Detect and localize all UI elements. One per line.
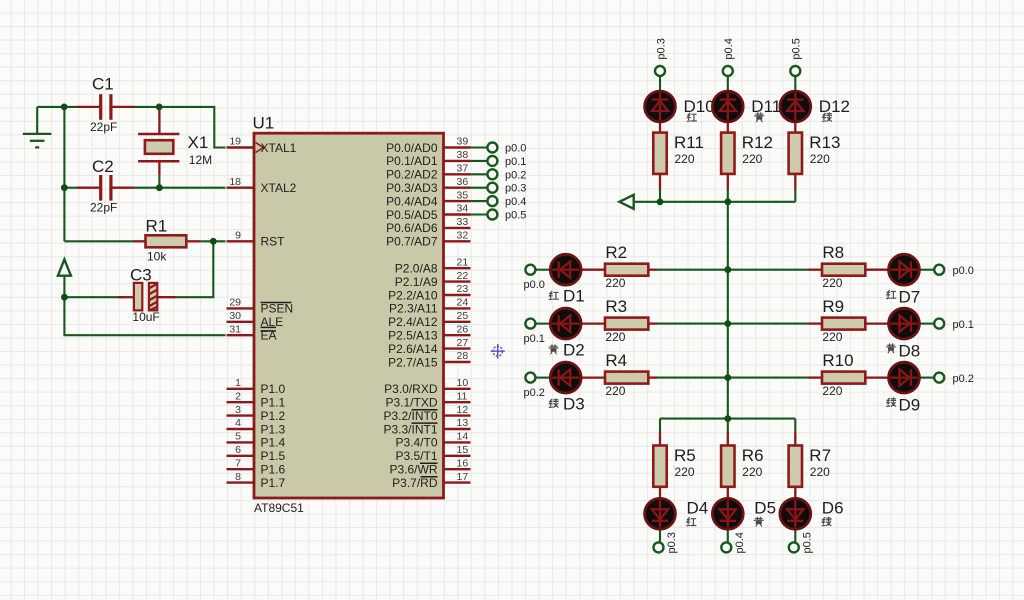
svg-text:p0.3: p0.3 (505, 183, 526, 195)
svg-text:25: 25 (457, 310, 469, 322)
svg-text:P2.1/A9: P2.1/A9 (395, 275, 438, 289)
svg-text:220: 220 (675, 465, 695, 479)
LED D9 (889, 362, 920, 393)
svg-text:27: 27 (457, 337, 469, 349)
junction: C2 / crystal bottom (156, 184, 163, 191)
wire: XTAL2 net right segment (135, 187, 226, 189)
wire: P0.4 pin to terminal (471, 200, 487, 202)
svg-text:p0.3: p0.3 (666, 532, 678, 553)
svg-text:D1: D1 (563, 287, 585, 306)
svg-text:R1: R1 (146, 216, 168, 235)
svg-text:4: 4 (235, 417, 241, 429)
svg-text:1: 1 (235, 377, 241, 389)
svg-text:19: 19 (229, 136, 241, 148)
pin P1.3 (#4) left stub (227, 417, 286, 436)
svg-text:220: 220 (605, 276, 625, 290)
pin P1.0 (#1) left stub (227, 377, 286, 396)
node p0.0 terminal at chip (487, 143, 497, 153)
pin P0.2/AD2 (#37) right stub (386, 163, 470, 182)
svg-text:32: 32 (457, 230, 469, 242)
svg-text:220: 220 (822, 276, 842, 290)
svg-text:R13: R13 (809, 133, 840, 152)
svg-text:38: 38 (457, 149, 469, 161)
pin P3.6/WR (#16) right stub (389, 457, 470, 476)
lead: R7 top (794, 432, 796, 446)
lead: D7 through-lead (865, 269, 920, 271)
svg-text:13: 13 (457, 417, 469, 429)
svg-text:p0.5: p0.5 (505, 210, 526, 222)
svg-text:p0.1: p0.1 (953, 319, 974, 331)
svg-text:D12: D12 (819, 97, 850, 116)
svg-text:p0.3: p0.3 (655, 38, 667, 59)
label colour of D3 (549, 399, 558, 408)
XTAL1 clock input marker (256, 143, 264, 153)
svg-text:6: 6 (235, 444, 241, 456)
wire: column C top riser (794, 189, 796, 202)
wire: RST net right of R1 (201, 240, 226, 242)
wire: column B top riser (727, 189, 729, 202)
svg-text:PSEN: PSEN (261, 302, 294, 316)
svg-text:36: 36 (457, 176, 469, 188)
svg-text:p0.5: p0.5 (801, 532, 813, 553)
node p0.1 terminal left (525, 319, 535, 329)
svg-text:C3: C3 (130, 265, 152, 284)
svg-text:P3.7/RD: P3.7/RD (392, 476, 438, 490)
svg-text:P1.1: P1.1 (261, 396, 286, 410)
lead: D6 through-lead (794, 487, 796, 530)
svg-text:14: 14 (457, 431, 469, 443)
svg-text:p0.4: p0.4 (734, 532, 746, 553)
svg-text:7: 7 (235, 457, 241, 469)
lead: R5 top (659, 432, 661, 446)
svg-text:D4: D4 (687, 499, 709, 518)
lead: D8 through-lead (865, 322, 920, 324)
resistor R4 (605, 351, 648, 398)
svg-text:P3.5/T1: P3.5/T1 (395, 449, 437, 463)
pin P3.5/T1 (#15) right stub (395, 444, 470, 463)
svg-text:P2.0/A8: P2.0/A8 (395, 262, 438, 276)
svg-text:R5: R5 (674, 446, 696, 465)
label colour of D11 (755, 113, 764, 122)
wire: bottom col A stub (659, 419, 661, 432)
svg-text:p0.0: p0.0 (524, 279, 545, 291)
svg-text:p0.4: p0.4 (505, 196, 526, 208)
origin crosshair marker (491, 344, 505, 359)
svg-text:33: 33 (457, 216, 469, 228)
junction: RST / C3 branch (210, 238, 217, 245)
svg-text:R11: R11 (674, 133, 704, 152)
wire: RST net left of R1 (64, 240, 133, 242)
svg-text:U1: U1 (253, 114, 275, 133)
lead: D5 through-lead (727, 487, 729, 530)
label colour of D1 (549, 291, 558, 299)
svg-text:21: 21 (457, 256, 469, 268)
resistor R7 (789, 446, 831, 487)
pin P2.7/A15 (#28) right stub (388, 350, 470, 369)
svg-text:p0.4: p0.4 (723, 38, 735, 59)
svg-text:35: 35 (457, 189, 469, 201)
wire: center vertical bus (727, 202, 729, 419)
svg-text:220: 220 (810, 152, 830, 166)
svg-text:R4: R4 (605, 351, 627, 370)
lead: R6 top (727, 432, 729, 446)
LED D8 (889, 308, 920, 339)
svg-text:P1.2: P1.2 (261, 409, 286, 423)
svg-text:34: 34 (457, 203, 469, 215)
wire: P0.3 pin to terminal (471, 187, 487, 189)
wire: bottom LED to terminal x=660.0 (659, 530, 661, 543)
wire: top terminal drop x=795.3 (794, 76, 796, 94)
svg-text:22pF: 22pF (90, 120, 117, 134)
wire: row 1 right (bus to R) (728, 269, 809, 271)
junction: row 3 / bus (724, 374, 731, 381)
svg-text:P2.3/A11: P2.3/A11 (389, 302, 438, 316)
svg-text:23: 23 (457, 283, 469, 295)
pin P0.4/AD4 (#35) right stub (386, 189, 470, 208)
svg-text:P3.6/WR: P3.6/WR (389, 463, 437, 477)
wire: EA net (64, 297, 225, 335)
resistor R11 (653, 133, 704, 174)
svg-text:22pF: 22pF (90, 200, 117, 214)
pin RST (#9) left stub (227, 230, 286, 249)
node p0.5 terminal at chip (487, 210, 497, 220)
node p0.5 terminal top (790, 66, 800, 76)
svg-text:12M: 12M (189, 153, 212, 167)
node p0.5 terminal bottom (789, 542, 799, 552)
node p0.1 terminal right (934, 319, 944, 329)
svg-text:R8: R8 (822, 243, 844, 262)
lead: D11 through-lead (727, 94, 729, 133)
pin XTAL2 (#18) left stub (227, 176, 297, 195)
svg-text:P1.7: P1.7 (261, 476, 286, 490)
lead: D10 through-lead (659, 94, 661, 133)
node p0.4 terminal top (723, 66, 733, 76)
pin P1.4 (#5) left stub (227, 431, 286, 450)
resistor R10 (822, 351, 865, 398)
wire: P0.2 pin to terminal (471, 173, 487, 175)
lead: R8 left (809, 269, 823, 271)
svg-text:P2.2/A10: P2.2/A10 (388, 288, 438, 302)
wire: row 2 left (R to bus) (657, 323, 728, 325)
LED D5 (712, 498, 743, 529)
pin XTAL1 (#19) left stub (227, 136, 297, 155)
svg-text:P2.7/A15: P2.7/A15 (388, 355, 438, 369)
label colour of D10 (687, 113, 696, 121)
label colour of D8 (886, 344, 895, 353)
svg-text:220: 220 (742, 152, 762, 166)
svg-text:P1.5: P1.5 (261, 449, 286, 463)
lead: R12 bottom (727, 174, 729, 190)
wire: RST junction down to C3 (176, 241, 214, 297)
LED D11 (712, 91, 743, 122)
wire: left vertical rail C1-C2-RST (63, 107, 65, 241)
svg-text:p0.2: p0.2 (953, 373, 974, 385)
overline for WR (420, 462, 438, 464)
svg-text:XTAL1: XTAL1 (261, 141, 297, 155)
wire: top terminal drop x=727.8 (727, 76, 729, 94)
node p0.3 terminal at chip (487, 183, 497, 193)
wire: row 1 terminal lead left (535, 269, 551, 271)
pin P3.2/INT0 (#12) right stub (383, 404, 470, 423)
IC U1 AT89C51 body (253, 114, 444, 516)
node p0.1 terminal at chip (487, 156, 497, 166)
power tag (up arrow) (58, 259, 71, 275)
lead: C1 left (77, 106, 100, 108)
svg-text:10k: 10k (147, 250, 167, 264)
junction: C3 / power rail (61, 294, 68, 301)
lead: D4 through-lead (659, 487, 661, 530)
lead: D2 through-lead (551, 322, 606, 324)
lead: R10 left (809, 376, 823, 378)
crystal X1 (138, 133, 212, 167)
svg-text:R9: R9 (822, 297, 844, 316)
capacitor C1 (90, 75, 117, 134)
lead: C1 right (112, 106, 135, 108)
wire: row 3 right (bus to R) (728, 377, 809, 379)
wire: P0.5 pin to terminal (471, 213, 487, 215)
wire: bottom col C stub (794, 419, 796, 432)
wire: bottom manifold (660, 418, 795, 420)
overline for PSEN (261, 302, 292, 304)
lead: D1 through-lead (551, 269, 606, 271)
svg-text:C1: C1 (92, 75, 114, 94)
node p0.0 terminal left (525, 265, 535, 275)
lead: R1 left (134, 240, 146, 242)
pin P0.5/AD5 (#34) right stub (386, 203, 470, 222)
svg-text:220: 220 (810, 465, 830, 479)
node p0.3 terminal bottom (654, 542, 664, 552)
svg-text:D3: D3 (563, 395, 585, 414)
svg-text:P2.5/A13: P2.5/A13 (388, 329, 438, 343)
svg-text:p0.5: p0.5 (791, 38, 803, 59)
svg-text:8: 8 (235, 471, 241, 483)
svg-text:P0.4/AD4: P0.4/AD4 (386, 194, 438, 208)
svg-text:p0.2: p0.2 (524, 387, 545, 399)
svg-text:31: 31 (229, 323, 241, 335)
svg-text:39: 39 (457, 136, 469, 148)
svg-text:10: 10 (457, 377, 469, 389)
pin P1.1 (#2) left stub (227, 390, 286, 409)
pin P0.7/AD7 (#32) right stub (386, 230, 470, 249)
label colour of D5 (754, 517, 763, 526)
svg-text:p0.0: p0.0 (953, 265, 974, 277)
svg-text:p0.1: p0.1 (524, 333, 545, 345)
LED D7 (889, 254, 920, 285)
svg-text:29: 29 (229, 297, 241, 309)
node p0.3 terminal top (655, 66, 665, 76)
svg-text:R3: R3 (605, 297, 627, 316)
svg-text:D7: D7 (899, 288, 921, 307)
svg-text:26: 26 (457, 323, 469, 335)
wire: C1 right to corner and down to XTAL1 (135, 107, 226, 148)
wire: crystal bottom to XTAL2 net (158, 176, 160, 188)
resistor R12 (721, 133, 773, 174)
svg-text:P0.0/AD0: P0.0/AD0 (386, 141, 438, 155)
svg-text:R12: R12 (742, 133, 773, 152)
pin P2.2/A10 (#23) right stub (388, 283, 470, 302)
pin PSEN (#29) left stub (227, 297, 294, 316)
pin P0.1/AD1 (#38) right stub (386, 149, 470, 168)
wire: row 2 terminal lead left (535, 323, 551, 325)
svg-text:12: 12 (457, 404, 469, 416)
resistor R6 (721, 446, 763, 487)
lead: C3 right (158, 296, 176, 298)
label colour of D7 (887, 290, 896, 298)
junction: C2 / left rail (61, 184, 68, 191)
svg-text:220: 220 (742, 465, 762, 479)
junction: top bus / col A (657, 198, 664, 205)
svg-text:R7: R7 (809, 446, 831, 465)
svg-text:D2: D2 (563, 341, 585, 360)
resistor R13 (789, 133, 841, 174)
wire: XTAL1 net (C1 top rail to chip) (37, 106, 77, 108)
capacitor C2 (90, 157, 117, 214)
LED D2 (550, 308, 581, 339)
lead: R11 bottom (659, 174, 661, 190)
wire: P0.0 pin to terminal (471, 146, 487, 148)
svg-text:P3.0/RXD: P3.0/RXD (384, 382, 438, 396)
svg-text:18: 18 (229, 176, 241, 188)
svg-text:D6: D6 (822, 499, 844, 518)
node p0.2 terminal left (525, 373, 535, 383)
lead: R4 right (648, 376, 657, 378)
pin P3.4/T0 (#14) right stub (395, 431, 470, 450)
wire: C3 left to power-arrow rail (64, 296, 126, 298)
pin P1.2 (#3) left stub (227, 404, 286, 423)
svg-text:C2: C2 (92, 157, 114, 176)
lead: D9 through-lead (865, 376, 920, 378)
node p0.4 terminal at chip (487, 196, 497, 206)
svg-text:P2.6/A14: P2.6/A14 (388, 342, 438, 356)
pin P0.3/AD3 (#36) right stub (386, 176, 470, 195)
svg-text:p0.2: p0.2 (505, 169, 526, 181)
pointer tag (left arrow) (619, 195, 633, 209)
svg-text:P3.1/TXD: P3.1/TXD (385, 396, 437, 410)
pin P3.0/RXD (#10) right stub (384, 377, 470, 396)
lead: C2 right (112, 187, 135, 189)
svg-text:2: 2 (235, 390, 241, 402)
pin P3.1/TXD (#11) right stub (385, 390, 470, 409)
svg-text:37: 37 (457, 163, 469, 175)
LED D12 (780, 91, 811, 122)
label colour of D6 (822, 517, 831, 526)
lead: R3 right (648, 322, 657, 324)
svg-text:220: 220 (822, 384, 842, 398)
label colour of D9 (887, 398, 896, 407)
pin P0.6/AD6 (#33) right stub (386, 216, 470, 235)
svg-text:P0.1/AD1: P0.1/AD1 (386, 154, 438, 168)
svg-text:11: 11 (457, 390, 468, 402)
pin ALE (#30) left stub (227, 310, 284, 329)
pin P1.6 (#7) left stub (227, 457, 286, 476)
pin P3.3/INT1 (#13) right stub (383, 417, 470, 436)
wire: P0.1 pin to terminal (471, 160, 487, 162)
junction: row 1 / bus (724, 266, 731, 273)
junction: row 2 / bus (724, 320, 731, 327)
junction: bottom manifold / bus (724, 415, 731, 422)
svg-text:30: 30 (229, 310, 241, 322)
svg-text:P3.4/T0: P3.4/T0 (395, 436, 437, 450)
svg-text:15: 15 (457, 444, 469, 456)
lead: C2 left (77, 187, 100, 189)
lead: D3 through-lead (551, 376, 606, 378)
lead: crystal top (158, 109, 160, 134)
pin P1.5 (#6) left stub (227, 444, 286, 463)
svg-text:X1: X1 (188, 133, 209, 152)
svg-text:AT89C51: AT89C51 (254, 501, 304, 515)
label colour of D12 (823, 113, 832, 122)
overline for INT1 (412, 422, 438, 424)
svg-text:P0.7/AD7: P0.7/AD7 (386, 235, 438, 249)
svg-text:P0.6/AD6: P0.6/AD6 (386, 221, 438, 235)
lead: R2 right (648, 269, 657, 271)
resistor R8 (822, 243, 865, 290)
wire: row 1 left (R to bus) (657, 269, 728, 271)
svg-text:p0.0: p0.0 (505, 143, 526, 155)
wire: row 3 left (R to bus) (657, 377, 728, 379)
wire: column A top riser (659, 189, 661, 202)
node p0.2 terminal right (934, 373, 944, 383)
svg-text:10uF: 10uF (132, 310, 159, 324)
wire: power arrow stem (63, 276, 65, 297)
svg-text:220: 220 (822, 330, 842, 344)
svg-text:220: 220 (605, 330, 625, 344)
pin P1.7 (#8) left stub (227, 471, 286, 490)
wire: row 2 right (bus to R) (728, 323, 809, 325)
LED D6 (780, 498, 811, 529)
svg-text:16: 16 (457, 457, 469, 469)
svg-text:P1.6: P1.6 (261, 463, 286, 477)
svg-text:P1.3: P1.3 (261, 422, 286, 436)
node p0.4 terminal bottom (721, 542, 731, 552)
pin P0.0/AD0 (#39) right stub (386, 136, 470, 155)
LED D10 (645, 91, 676, 122)
resistor R3 (605, 297, 648, 344)
svg-text:P0.5/AD5: P0.5/AD5 (386, 208, 438, 222)
label colour of D4 (687, 518, 696, 526)
label colour of D2 (549, 345, 558, 354)
pin P2.3/A11 (#24) right stub (389, 297, 470, 316)
LED D1 (550, 254, 581, 285)
svg-text:5: 5 (235, 431, 241, 443)
LED D3 (550, 362, 581, 393)
svg-text:D9: D9 (899, 396, 921, 415)
svg-text:p0.1: p0.1 (505, 156, 526, 168)
svg-text:P1.0: P1.0 (261, 382, 286, 396)
svg-text:220: 220 (605, 384, 625, 398)
wire: row 3 terminal lead left (535, 377, 551, 379)
svg-text:R10: R10 (822, 351, 853, 370)
wire: row 3 LED-terminal lead right (920, 377, 935, 379)
wire: ground stem (36, 107, 38, 134)
lead: C3 left (118, 296, 133, 298)
lead: R13 bottom (794, 174, 796, 190)
wire: bottom LED to terminal x=795.3 (794, 530, 796, 543)
overline for INT0 (412, 409, 438, 411)
svg-text:220: 220 (675, 152, 695, 166)
pin P3.7/RD (#17) right stub (392, 471, 470, 490)
wire: XTAL2 net left segment (64, 187, 77, 189)
resistor R2 (605, 243, 648, 290)
svg-text:24: 24 (457, 297, 469, 309)
svg-text:RST: RST (261, 235, 286, 249)
node p0.0 terminal right (934, 265, 944, 275)
svg-text:R2: R2 (605, 243, 627, 262)
lead: R9 left (809, 322, 823, 324)
ground (23, 134, 52, 148)
junction: top bus / col B (724, 198, 731, 205)
svg-text:P0.2/AD2: P0.2/AD2 (386, 168, 438, 182)
